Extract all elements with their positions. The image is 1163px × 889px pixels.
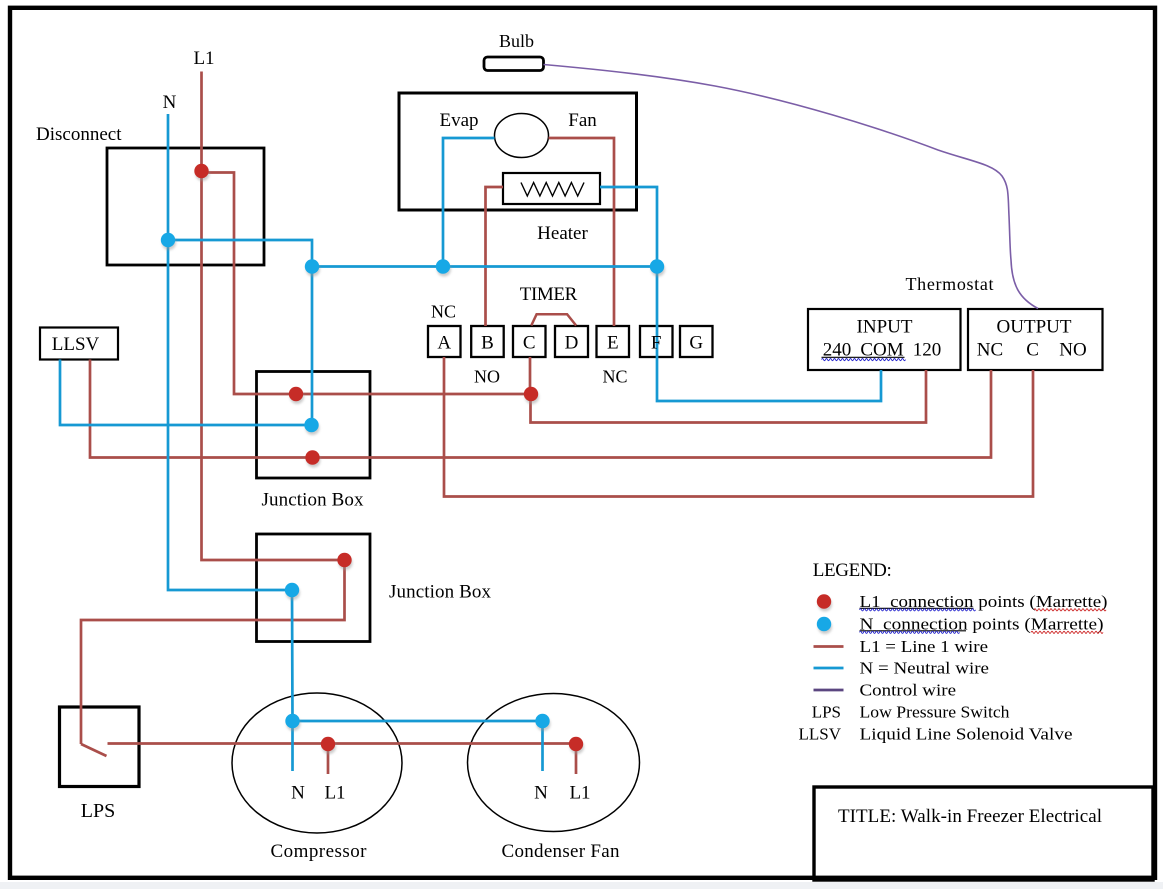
wire N branch to bus xyxy=(168,240,312,425)
svg-text:L1: L1 xyxy=(324,783,345,804)
timer terminal C xyxy=(513,326,546,357)
timer terminal G xyxy=(680,326,713,357)
svg-text:Fan: Fan xyxy=(568,110,597,131)
svg-text:F: F xyxy=(651,333,662,354)
LPS switch blade xyxy=(81,744,107,756)
legend L1 line swatch xyxy=(814,645,844,648)
svg-text:NC: NC xyxy=(977,340,1003,361)
thermostat OUTPUT box xyxy=(968,309,1103,370)
compressor circle xyxy=(232,693,402,833)
control wire bulb to OUTPUT xyxy=(544,65,1039,309)
timer terminal B xyxy=(471,326,504,357)
N marrette dot disconnect xyxy=(161,233,175,247)
N marrette dot bus mid xyxy=(436,259,450,273)
wire N drop from top xyxy=(167,114,170,240)
legend item 1 underline xyxy=(860,607,974,609)
svg-text:LLSV: LLSV xyxy=(52,334,100,355)
svg-text:D: D xyxy=(565,333,579,354)
N marrette dot bus right xyxy=(650,259,664,273)
compressor N stub xyxy=(291,721,294,771)
L1 marrette dot LLSV line xyxy=(305,450,319,464)
svg-text:Liquid Line Solenoid Valve: Liquid Line Solenoid Valve xyxy=(860,725,1073,744)
thermostat INPUT box xyxy=(808,309,961,370)
condenser fan circle xyxy=(468,694,640,832)
legend N line swatch xyxy=(814,667,844,670)
wire N bus xyxy=(312,265,657,268)
svg-text:LLSV: LLSV xyxy=(799,725,842,744)
legend item 2 underline xyxy=(860,630,967,632)
svg-text:E: E xyxy=(607,333,619,354)
wire heater to terminal B xyxy=(486,187,504,326)
svg-text:LEGEND:: LEGEND: xyxy=(813,560,892,581)
svg-text:G: G xyxy=(689,333,703,354)
marrette dots shadows xyxy=(162,167,832,754)
svg-text:Thermostat: Thermostat xyxy=(906,274,994,294)
LPS box xyxy=(60,707,140,787)
svg-text:Disconnect: Disconnect xyxy=(36,124,122,145)
LLSV box xyxy=(40,328,118,360)
svg-text:L1: L1 xyxy=(193,48,214,69)
svg-text:N = Neutral wire: N = Neutral wire xyxy=(860,659,990,678)
L1 marrette dot disconnect xyxy=(194,164,208,178)
compressor L1 stub xyxy=(327,744,330,774)
svg-text:TITLE: Walk-in Freezer Electri: TITLE: Walk-in Freezer Electrical xyxy=(838,806,1102,827)
svg-text:N: N xyxy=(291,783,305,804)
wire L1 branch disconnect to timer C node xyxy=(202,173,532,395)
N marrette dot bus left xyxy=(305,259,319,273)
svg-text:NC: NC xyxy=(431,302,456,322)
svg-text:LPS: LPS xyxy=(81,800,115,822)
N marrette dot condenser xyxy=(535,714,549,728)
title block box xyxy=(814,787,1153,880)
timer terminal D xyxy=(555,326,588,357)
L1 marrette dot compressor xyxy=(321,737,335,751)
N marrette dot junction box 2 xyxy=(285,583,299,597)
svg-text:Junction Box: Junction Box xyxy=(389,582,492,603)
wire terminal C drop xyxy=(529,357,532,394)
wire L1 disconnect to junction box 2 xyxy=(202,171,345,560)
svg-text:NO: NO xyxy=(474,367,500,387)
wire heater to bus xyxy=(600,187,657,267)
wire N disconnect to junction box 2 xyxy=(168,240,292,590)
condenser L1 stub xyxy=(575,744,578,774)
svg-text:Evap: Evap xyxy=(439,110,478,131)
svg-text:Compressor: Compressor xyxy=(271,841,368,862)
svg-text:120: 120 xyxy=(913,340,942,361)
svg-text:Condenser Fan: Condenser Fan xyxy=(502,841,621,862)
wire bus through F to INPUT COM xyxy=(657,267,881,402)
L1 marrette dot condenser xyxy=(569,737,583,751)
svg-text:C: C xyxy=(1026,340,1039,361)
legend L1 dot xyxy=(817,594,831,608)
wire junction box 2 N to motors xyxy=(292,590,543,721)
svg-text:Heater: Heater xyxy=(537,223,588,244)
wire LLSV N to junction box 1 xyxy=(60,360,312,426)
svg-text:Junction Box: Junction Box xyxy=(262,490,365,511)
timer terminal A xyxy=(428,326,461,357)
disconnect box xyxy=(107,148,264,265)
underline 240 COM xyxy=(822,356,905,358)
timer terminal F xyxy=(640,326,673,357)
L1 marrette dot junction box 1 xyxy=(289,387,303,401)
svg-text:A: A xyxy=(437,333,451,354)
bulb xyxy=(484,57,544,71)
wire LPS to compressor and condenser L1 xyxy=(108,742,577,745)
N marrette dot compressor xyxy=(285,714,299,728)
svg-text:NC: NC xyxy=(602,367,627,387)
legend control line swatch xyxy=(814,689,844,692)
svg-text:NO: NO xyxy=(1059,340,1086,361)
timer terminal E xyxy=(597,326,630,357)
svg-text:Control wire: Control wire xyxy=(860,681,957,700)
evaporator box xyxy=(399,93,637,210)
junction box 1 xyxy=(257,372,371,479)
svg-text:INPUT: INPUT xyxy=(857,317,913,338)
wire bus to fan motor xyxy=(443,138,495,267)
svg-text:C: C xyxy=(523,333,536,354)
wire jumper C to D xyxy=(531,314,576,325)
svg-text:B: B xyxy=(481,333,494,354)
wire junction box 2 to LPS to motors xyxy=(81,560,345,744)
wire C node to INPUT 120 xyxy=(531,370,927,423)
heater box xyxy=(503,173,600,204)
spellcheck wavy N connection xyxy=(860,631,960,633)
svg-text:L1: L1 xyxy=(569,783,590,804)
wire terminal A to OUTPUT C xyxy=(444,357,1033,497)
svg-text:LPS: LPS xyxy=(812,703,841,722)
wire L1 drop from top xyxy=(200,72,203,172)
page edge strip xyxy=(0,882,1163,889)
svg-text:OUTPUT: OUTPUT xyxy=(997,317,1072,338)
spellcheck wavy 240 COM xyxy=(822,359,906,361)
N marrette dot junction box 1 xyxy=(304,418,318,432)
wire LLSV to OUTPUT NC xyxy=(90,360,991,458)
svg-text:N: N xyxy=(534,783,548,804)
svg-text:L1 = Line 1 wire: L1 = Line 1 wire xyxy=(860,637,989,656)
wire fan to terminal E xyxy=(549,138,615,326)
heater element zigzag xyxy=(521,183,584,197)
spellcheck wavy L1 connection xyxy=(860,609,976,611)
svg-text:Low Pressure Switch: Low Pressure Switch xyxy=(860,703,1011,722)
spellcheck wavy Marrette 1 xyxy=(1034,609,1106,611)
L1 marrette dot junction box 2 xyxy=(337,553,351,567)
spellcheck wavy Marrette 2 xyxy=(1031,631,1103,633)
fan motor circle xyxy=(495,114,549,158)
svg-text:Bulb: Bulb xyxy=(499,31,534,51)
svg-text:N: N xyxy=(163,92,177,113)
condenser N stub xyxy=(541,721,544,771)
legend N dot xyxy=(817,617,831,631)
L1 marrette dot timer C node xyxy=(524,387,538,401)
svg-text:TIMER: TIMER xyxy=(520,284,578,305)
junction box 2 xyxy=(257,534,371,642)
